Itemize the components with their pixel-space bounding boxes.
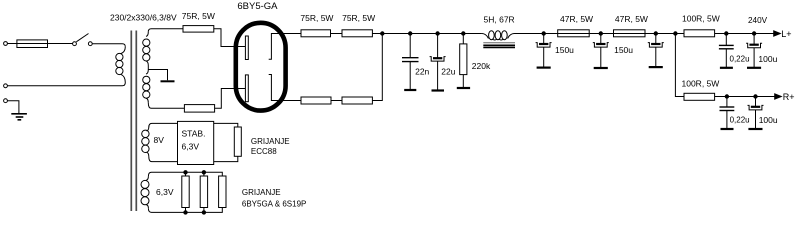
capacitor C4 150u bbox=[593, 34, 609, 68]
svg-text:0,22u: 0,22u bbox=[730, 116, 750, 125]
wire branch down bbox=[675, 34, 684, 97]
earth ground bbox=[11, 114, 27, 120]
ground C5 bbox=[649, 66, 663, 68]
svg-text:ECC88: ECC88 bbox=[251, 147, 277, 156]
wire neutral bbox=[7, 83, 125, 86]
resistor R9 100R 5W (R) bbox=[684, 93, 715, 100]
ground C8 bbox=[721, 128, 734, 130]
svg-text:0,22u: 0,22u bbox=[730, 54, 750, 63]
svg-text:5H, 67R: 5H, 67R bbox=[484, 15, 515, 25]
wire main rail bbox=[372, 33, 481, 35]
transformer TR1 primary winding bbox=[116, 47, 126, 83]
wire HV top lead bbox=[148, 29, 183, 32]
node bbox=[599, 32, 602, 35]
node bbox=[462, 32, 465, 35]
ground C1 bbox=[404, 89, 416, 91]
ground R5 bbox=[457, 87, 470, 89]
svg-text:75R, 5W: 75R, 5W bbox=[300, 13, 333, 23]
wire bbox=[331, 100, 342, 102]
resistor R8 100R 5W (L) bbox=[684, 30, 715, 37]
svg-text:GRIJANJE: GRIJANJE bbox=[242, 188, 281, 197]
capacitor C7 100u bbox=[746, 34, 762, 68]
ground center tap bbox=[161, 80, 175, 82]
resistor R4b 75R lower bbox=[342, 97, 372, 104]
wire bbox=[7, 101, 19, 114]
node bbox=[202, 171, 205, 174]
capacitor C2 22u bbox=[430, 34, 446, 90]
transformer TR1 winding 6,3V bbox=[141, 176, 149, 208]
tube V1 6BY5-GA envelope bbox=[236, 23, 286, 111]
node bbox=[184, 171, 187, 174]
node bbox=[184, 211, 187, 214]
svg-text:47R, 5W: 47R, 5W bbox=[615, 14, 648, 24]
mains terminal L bbox=[4, 42, 8, 46]
switch S1 bbox=[73, 34, 93, 46]
wire stab right top bbox=[214, 123, 238, 127]
transformer TR1 secondary HV upper bbox=[143, 32, 150, 70]
inductor L1 core bbox=[483, 43, 515, 48]
resistor R7 47R 5W bbox=[614, 30, 646, 37]
svg-text:22u: 22u bbox=[441, 67, 455, 77]
svg-text:22n: 22n bbox=[415, 66, 429, 76]
resistor R3b 75R lower bbox=[301, 97, 331, 104]
fuse F1 bbox=[7, 40, 72, 48]
svg-text:75R, 5W: 75R, 5W bbox=[342, 13, 375, 23]
inductor L1 5H 67R bbox=[482, 31, 515, 40]
wire 8V top bbox=[149, 123, 177, 127]
svg-text:100u: 100u bbox=[759, 115, 778, 125]
ground C9 bbox=[748, 128, 762, 130]
node bbox=[725, 32, 728, 35]
wire to lower anode bbox=[215, 89, 246, 109]
svg-text:100R, 5W: 100R, 5W bbox=[682, 79, 720, 89]
node bbox=[202, 211, 205, 214]
svg-text:150u: 150u bbox=[555, 45, 574, 55]
svg-text:220k: 220k bbox=[472, 61, 491, 71]
capacitor C5 150u bbox=[648, 34, 664, 67]
wire bbox=[715, 96, 775, 98]
arrow L+ bbox=[774, 31, 781, 36]
svg-text:75R, 5W: 75R, 5W bbox=[182, 11, 215, 21]
tube V1 cathode K1 bbox=[269, 34, 301, 60]
resistor RH2 bbox=[200, 172, 207, 212]
wire 6,3V top rail bbox=[148, 172, 222, 176]
svg-text:STAB.: STAB. bbox=[182, 128, 206, 138]
svg-text:100u: 100u bbox=[758, 54, 777, 64]
svg-text:GRIJANJE: GRIJANJE bbox=[251, 137, 290, 146]
svg-text:6BY5GA & 6S19P: 6BY5GA & 6S19P bbox=[242, 200, 307, 209]
stabilizer U1 box bbox=[178, 121, 214, 164]
node bbox=[725, 95, 728, 98]
center tap wire bbox=[148, 70, 167, 81]
wire 8V bottom bbox=[149, 157, 177, 162]
ground C6 bbox=[720, 67, 733, 69]
node branch R+ bbox=[674, 32, 677, 35]
capacitor C1 22n bbox=[402, 34, 419, 90]
capacitor C3 150u bbox=[536, 34, 552, 67]
svg-text:100R, 5W: 100R, 5W bbox=[682, 13, 720, 23]
svg-text:150u: 150u bbox=[614, 45, 633, 55]
wire stab right bottom bbox=[214, 156, 238, 161]
transformer TR1 core bbox=[131, 31, 136, 212]
node bbox=[752, 32, 755, 35]
arrow R+ bbox=[775, 94, 782, 99]
wire lower joins rail bbox=[372, 34, 382, 101]
capacitor C8 0,22u bbox=[720, 97, 735, 129]
svg-text:8V: 8V bbox=[154, 135, 165, 145]
svg-text:240V: 240V bbox=[748, 16, 768, 25]
svg-text:47R, 5W: 47R, 5W bbox=[560, 14, 593, 24]
tube V1 cathode K2 bbox=[269, 75, 301, 101]
wire bbox=[715, 33, 774, 35]
capacitor C9 100u bbox=[748, 97, 764, 129]
tube V1 anode A1 bbox=[245, 36, 248, 60]
transformer TR1 secondary HV lower bbox=[143, 70, 150, 103]
svg-text:6,3V: 6,3V bbox=[182, 141, 200, 151]
svg-text:R+: R+ bbox=[783, 92, 795, 102]
node bbox=[754, 95, 757, 98]
svg-text:6BY5-GA: 6BY5-GA bbox=[237, 1, 278, 12]
resistor R5 220k bbox=[460, 34, 467, 88]
resistor RH1 bbox=[182, 172, 189, 212]
mains terminal N bbox=[4, 84, 8, 88]
node junction bbox=[381, 32, 384, 35]
resistor R6 47R 5W bbox=[558, 30, 590, 37]
capacitor C6 0,22u bbox=[719, 34, 734, 68]
wire bbox=[331, 33, 343, 35]
svg-text:6,3V: 6,3V bbox=[156, 187, 174, 197]
svg-text:L+: L+ bbox=[781, 29, 791, 39]
mains terminal PE bbox=[4, 99, 8, 103]
wire HV bottom lead bbox=[148, 103, 184, 109]
resistor R4 75R 5W bbox=[342, 30, 372, 37]
svg-text:230/2x330/6,3/8V: 230/2x330/6,3/8V bbox=[110, 13, 177, 23]
wire main rail 2 bbox=[515, 33, 685, 35]
wire to upper anode bbox=[214, 29, 246, 47]
wire 6,3V bottom rail bbox=[148, 208, 222, 213]
resistor R2 75R 5W (lower anode) bbox=[184, 105, 214, 113]
node bbox=[436, 32, 439, 35]
resistor R1 75R 5W (upper anode) bbox=[183, 26, 214, 32]
ground C3 bbox=[537, 66, 551, 68]
resistor ECC88 heater load bbox=[234, 127, 241, 156]
transformer TR1 winding 8V bbox=[142, 127, 149, 157]
node bbox=[654, 32, 657, 35]
node bbox=[542, 32, 545, 35]
ground C4 bbox=[594, 67, 608, 69]
wire to primary bbox=[92, 44, 125, 47]
tube V1 anode A2 bbox=[245, 75, 248, 102]
ground C7 bbox=[747, 67, 761, 69]
resistor RH3 bbox=[219, 176, 226, 208]
ground C2 bbox=[432, 89, 445, 91]
node bbox=[409, 32, 412, 35]
resistor R3 75R 5W bbox=[301, 30, 331, 37]
